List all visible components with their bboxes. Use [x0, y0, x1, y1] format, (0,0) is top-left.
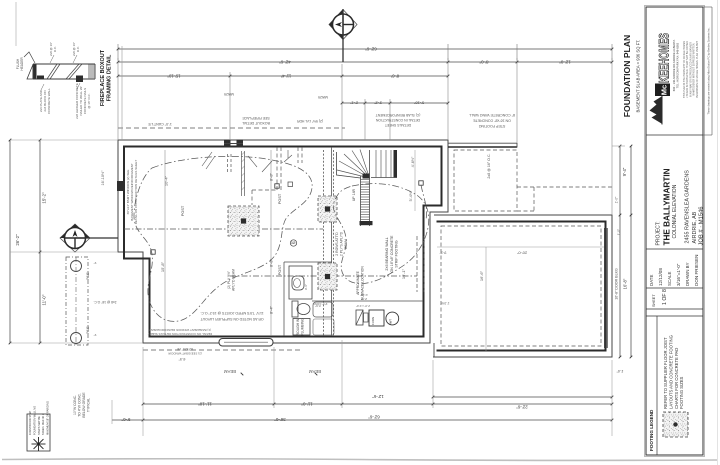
- svg-text:FRAMING DETAIL: FRAMING DETAIL: [107, 54, 113, 101]
- svg-text:2'-1": 2'-1": [349, 101, 358, 106]
- svg-text:DETAILS SHEET: DETAILS SHEET: [385, 123, 411, 127]
- svg-text:1'-0½": 1'-0½": [440, 301, 449, 305]
- svg-text:O.C.: O.C.: [53, 46, 57, 52]
- svg-text:16'-1": 16'-1": [401, 268, 406, 279]
- svg-text:FIREPLACE BOXOUT: FIREPLACE BOXOUT: [100, 49, 106, 106]
- svg-text:DETAIL IN CONSTRUCTION: DETAIL IN CONSTRUCTION: [375, 118, 420, 122]
- svg-text:11'-4": 11'-4": [280, 74, 291, 79]
- svg-text:42'-6": 42'-6": [279, 60, 291, 65]
- svg-text:CHARTS FOR CONCRETE PAD: CHARTS FOR CONCRETE PAD: [674, 348, 679, 409]
- svg-text:STEPS MAY BE: STEPS MAY BE: [37, 416, 41, 435]
- svg-text:20'-0": 20'-0": [516, 251, 527, 256]
- svg-text:1'-0": 1'-0": [617, 229, 621, 235]
- svg-text:12/12/08: 12/12/08: [658, 268, 663, 286]
- svg-text:15'-10": 15'-10": [167, 74, 181, 79]
- svg-text:2x8 @ 16" O.C.: 2x8 @ 16" O.C.: [487, 153, 491, 178]
- svg-text:2x8 @ 16" O.C.: 2x8 @ 16" O.C.: [93, 300, 116, 304]
- svg-text:POST: POST: [278, 264, 282, 275]
- svg-text:PERMISSION OF MCKEE HOMES.: PERMISSION OF MCKEE HOMES. PLAN 1546-BMT: [696, 40, 699, 98]
- svg-text:ON 16"x8" CONCRETE: ON 16"x8" CONCRETE: [472, 119, 511, 123]
- svg-text:3'-2": 3'-2": [373, 101, 382, 106]
- svg-text:PROJECT:: PROJECT:: [656, 221, 662, 245]
- svg-text:TO 4"W CONC.: TO 4"W CONC.: [78, 393, 82, 417]
- svg-text:CONCRETE WALL: CONCRETE WALL: [47, 88, 51, 114]
- svg-text:8'-0": 8'-0": [479, 60, 488, 65]
- svg-text:600 - 140 AIRDRIE RD AIRDRIE: 600 - 140 AIRDRIE RD AIRDRIE ALBERTA: [672, 40, 676, 92]
- svg-text:22'-6": 22'-6": [516, 405, 528, 410]
- svg-text:SHEET: SHEET: [652, 294, 656, 307]
- svg-text:9'-4": 9'-4": [622, 167, 627, 176]
- svg-text:STEP FOOTING: STEP FOOTING: [478, 124, 505, 128]
- svg-text:MW29: MW29: [318, 95, 328, 99]
- svg-text:BEAM: BEAM: [224, 369, 236, 374]
- svg-text:10"W CONC.: 10"W CONC.: [73, 395, 77, 415]
- svg-text:AIRDRIE, AB: AIRDRIE, AB: [692, 211, 698, 243]
- svg-text:DATE: DATE: [649, 275, 654, 286]
- svg-text:15'-8": 15'-8": [160, 261, 165, 272]
- svg-text:Mc: Mc: [660, 85, 669, 95]
- svg-text:POST: POST: [278, 193, 282, 204]
- svg-text:APPROXIMATE: APPROXIMATE: [356, 270, 360, 294]
- svg-text:4'-10": 4'-10": [360, 293, 368, 297]
- svg-text:62'-6": 62'-6": [368, 415, 380, 420]
- svg-text:APLY'D BEAM: APLY'D BEAM: [232, 269, 236, 291]
- svg-text:16'-6": 16'-6": [479, 270, 484, 281]
- svg-text:BASEMENT SLAB AREA = 936 SQ FT: BASEMENT SLAB AREA = 936 SQ FT.: [636, 40, 641, 113]
- svg-text:4'-6½": 4'-6½": [411, 156, 415, 167]
- svg-text:FOOTING LEGEND: FOOTING LEGEND: [649, 409, 654, 451]
- svg-text:12'-6": 12'-6": [372, 394, 384, 399]
- svg-text:BOXOUT DETAIL: BOXOUT DETAIL: [242, 121, 270, 125]
- svg-text:11'-0": 11'-0": [301, 402, 313, 407]
- svg-text:HEADER: HEADER: [20, 57, 24, 71]
- svg-text:16'-8" DOOR BLKG: 16'-8" DOOR BLKG: [615, 268, 619, 300]
- svg-text:11'-0": 11'-0": [42, 294, 47, 305]
- svg-text:1'-0": 1'-0": [615, 196, 619, 204]
- svg-text:TAKEN. MAX 30 X: TAKEN. MAX 30 X: [41, 413, 45, 435]
- svg-text:OR AS NOTED ON SUPPLIER LAYOUT: OR AS NOTED ON SUPPLIER LAYOUT: [200, 317, 264, 321]
- svg-text:9'-0": 9'-0": [121, 417, 130, 422]
- svg-text:FURN: FURN: [371, 317, 375, 325]
- svg-text:26'-2": 26'-2": [15, 234, 20, 246]
- svg-text:9'-2": 9'-2": [439, 251, 447, 255]
- svg-text:FOOTING SIZES: FOOTING SIZES: [679, 376, 684, 409]
- svg-text:11⅞" TJI'S MFR'D JOISTS @ 19.2: 11⅞" TJI'S MFR'D JOISTS @ 19.2" O.C.: [200, 311, 263, 315]
- svg-text:60"x24" VE: 60"x24" VE: [177, 347, 193, 351]
- svg-text:2X6 BEARING WALL: 2X6 BEARING WALL: [385, 237, 389, 270]
- svg-text:2'-6": 2'-6": [361, 297, 367, 301]
- svg-text:1'-0": 1'-0": [616, 369, 624, 373]
- svg-text:11'-10": 11'-10": [198, 402, 212, 407]
- svg-text:POST: POST: [181, 205, 185, 216]
- svg-text:STRIP FOOTING: STRIP FOOTING: [395, 240, 399, 267]
- svg-text:10'-4": 10'-4": [164, 175, 169, 186]
- svg-text:12'-0": 12'-0": [559, 60, 571, 65]
- svg-text:UP 14R: UP 14R: [352, 188, 356, 201]
- svg-text:JOB # · M1546: JOB # · M1546: [699, 207, 705, 246]
- svg-text:8'-6": 8'-6": [390, 74, 399, 79]
- svg-text:LAYOUTS AND CONCRETE FOOTING: LAYOUTS AND CONCRETE FOOTING: [668, 335, 673, 409]
- svg-text:COLONIAL ELEVATION: COLONIAL ELEVATION: [672, 184, 678, 238]
- svg-text:6'-5": 6'-5": [178, 357, 186, 361]
- svg-text:MW29: MW29: [224, 92, 234, 96]
- svg-text:SEE FIREPLACE: SEE FIREPLACE: [242, 116, 270, 120]
- svg-text:9": 9": [94, 261, 97, 265]
- svg-text:9": 9": [94, 333, 97, 337]
- svg-text:DETAIL ON CONSTRUCTION DETAILS: DETAIL ON CONSTRUCTION DETAILS SHEET: [134, 160, 138, 225]
- svg-text:9'-6": 9'-6": [304, 284, 308, 290]
- svg-text:SCALE: SCALE: [667, 272, 672, 286]
- svg-text:8'-4": 8'-4": [269, 305, 274, 314]
- svg-text:BELOW GRADE: BELOW GRADE: [82, 392, 86, 418]
- svg-text:16'-8": 16'-8": [623, 278, 628, 289]
- svg-text:(2) 9½" LVL HDR: (2) 9½" LVL HDR: [297, 119, 323, 123]
- svg-text:FOUNDATION PLAN: FOUNDATION PLAN: [622, 35, 632, 117]
- svg-text:KEEHOMES: KEEHOMES: [656, 33, 672, 83]
- svg-text:2 PLY'S APLY'D: 2 PLY'S APLY'D: [340, 231, 344, 256]
- svg-text:3Ø: 3Ø: [291, 241, 296, 245]
- svg-text:FOUNDATION WALL NO: FOUNDATION WALL NO: [32, 406, 36, 435]
- svg-text:(C) SLAB REINFORCEMENT: (C) SLAB REINFORCEMENT: [376, 113, 421, 117]
- svg-text:2'-0" x 2'-6": 2'-0" x 2'-6": [356, 304, 370, 308]
- svg-text:3/16"=1'-0": 3/16"=1'-0": [676, 263, 681, 286]
- svg-text:DETAIL ON CONSTRUCTION DETAILS: DETAIL ON CONSTRUCTION DETAILS SHEET: [148, 332, 213, 336]
- svg-text:PLUMBING: PLUMBING: [301, 318, 305, 336]
- svg-text:2 ROWS ATT'D: 2 ROWS ATT'D: [335, 232, 339, 256]
- svg-text:ROUGH IN: ROUGH IN: [296, 318, 300, 335]
- svg-text:DRAWN BY: DRAWN BY: [685, 262, 690, 286]
- svg-text:PILE: PILE: [86, 326, 90, 334]
- svg-text:HWT: HWT: [389, 319, 393, 325]
- svg-text:DON FRIESEN: DON FRIESEN: [694, 255, 699, 286]
- svg-text:(1) BASEMENT WINDOW REINFORCEM: (1) BASEMENT WINDOW REINFORCEMENT: [149, 328, 211, 332]
- svg-text:PILE: PILE: [86, 272, 90, 280]
- svg-text:FORM WOOD STEP: FORM WOOD STEP: [28, 411, 32, 435]
- svg-text:TYPICAL: TYPICAL: [87, 398, 91, 412]
- svg-text:These drawings are created usi: These drawings are created using MicroSt…: [707, 27, 711, 114]
- svg-text:15'-2": 15'-2": [42, 192, 47, 204]
- svg-text:3½" CONC: 3½" CONC: [312, 302, 328, 306]
- svg-text:O.C.: O.C.: [76, 46, 80, 52]
- svg-text:2455 RAVENSLEA GARDENS: 2455 RAVENSLEA GARDENS: [685, 170, 691, 244]
- svg-text:8" CONCRETE WING WALL: 8" CONCRETE WING WALL: [469, 113, 515, 117]
- svg-text:8'-8": 8'-8": [269, 172, 274, 181]
- svg-text:ON 16"x8" CONCRETE: ON 16"x8" CONCRETE: [390, 235, 394, 273]
- svg-text:62'-6": 62'-6": [365, 47, 377, 52]
- svg-text:REFER TO SUPPLIER FLOOR JOIST: REFER TO SUPPLIER FLOOR JOIST: [663, 337, 668, 409]
- svg-text:1 OF 8: 1 OF 8: [662, 289, 668, 305]
- svg-text:@ 16" O.C.: @ 16" O.C.: [87, 93, 91, 108]
- svg-text:1'-0" CANT'L'E: 1'-0" CANT'L'E: [148, 122, 172, 126]
- svg-text:TEL: HORIZON PARK FAX: 948-6: TEL: HORIZON PARK FAX: 948-6363: [676, 42, 680, 88]
- svg-text:36'-0": 36'-0": [274, 417, 286, 422]
- svg-text:5'-10": 5'-10": [413, 101, 424, 106]
- svg-text:THE BALLYMARTIN: THE BALLYMARTIN: [663, 168, 672, 245]
- svg-text:MAXIMUM 18" OF PARGING: MAXIMUM 18" OF PARGING: [46, 401, 50, 435]
- svg-text:16'-10½": 16'-10½": [101, 170, 105, 186]
- svg-text:(2) SEE BSMT WINDOW: (2) SEE BSMT WINDOW: [168, 352, 202, 356]
